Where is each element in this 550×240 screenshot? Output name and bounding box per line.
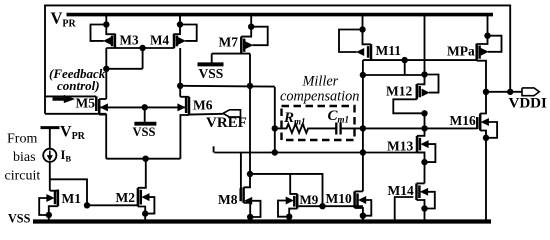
wire M11 source to rail (362, 14, 364, 30)
svg-text:bias: bias (13, 150, 36, 165)
transistor M4 channel bar (173, 34, 176, 49)
wire M7 drain down to M8 drain (244, 54, 250, 188)
wire M13 bulk loop (425, 144, 436, 162)
svg-text:M11: M11 (376, 43, 402, 58)
wire M9-M10 gate bus (299, 205, 363, 207)
svg-text:VSS: VSS (8, 212, 31, 226)
transistor M11 channel bar (370, 44, 373, 60)
arrow into M5 bulk (100, 104, 107, 111)
node M3 gate-source tap (103, 21, 109, 27)
wire M9 drain lead up (290, 174, 297, 194)
Miller compensation dashed box (282, 106, 355, 140)
transistor M9 channel bar (296, 194, 299, 209)
arrow into MPa bulk (481, 48, 488, 55)
node M16 gate wire crossing (421, 125, 427, 131)
wire M12 source to rail (424, 14, 426, 75)
svg-text:VSS: VSS (199, 66, 224, 81)
wire M5-M6 bulk tie with arrows (101, 106, 185, 108)
node M8 drain / M9 bus tap (247, 171, 253, 177)
svg-text:VDDI: VDDI (509, 96, 547, 112)
node M1 bulk-source tie (46, 212, 52, 218)
capacitor Cm1 left plate (335, 123, 337, 135)
node M4 source tap (177, 21, 183, 27)
svg-text:compensation: compensation (280, 89, 359, 105)
node comp column crossing (360, 125, 366, 131)
wire M12 gate loop (425, 75, 439, 93)
wire M1 bulk loop (39, 198, 49, 215)
wire M5 source down (99, 115, 106, 159)
wire M10 drain lead to riser (355, 190, 363, 192)
arrow into M6 bulk (178, 104, 185, 111)
transistor M16 channel bar (479, 114, 482, 131)
wire M4 source lead (174, 25, 180, 35)
wire M2 drain lead up to tail (138, 159, 146, 188)
arrow into M1 bulk (47, 195, 54, 202)
transistor M2 channel bar (137, 188, 140, 207)
wire M8 gate drop (240, 153, 242, 189)
wire Cm1 to M16 gate (341, 127, 478, 129)
wire M14 bulk loop (425, 192, 435, 209)
arrow into M14 bulk (421, 188, 428, 195)
node M2 bulk-source tie (142, 210, 148, 216)
wire M3 drain down to M5 (105, 48, 107, 99)
wire MPa drain down to VDDI node (477, 61, 486, 92)
current source IB circle (43, 149, 56, 162)
wire M1 source lead (49, 206, 58, 220)
arrow into M9 bulk (286, 197, 293, 204)
wire VREF net drop to bias bus (213, 146, 215, 152)
node feedback takeoff (507, 89, 513, 95)
wire IB to M1 (49, 162, 51, 191)
wire M10 bulk loop (363, 200, 371, 216)
transistor M7 gate bar (243, 39, 246, 52)
node MPa source tap (484, 33, 490, 39)
wire MPa gate loop (488, 36, 502, 52)
node M12 drain (421, 110, 427, 116)
svg-text:From: From (7, 132, 37, 147)
current source IB arrow (49, 151, 51, 158)
node MPa gate tap (402, 57, 408, 63)
wire center tap down (142, 48, 144, 69)
arrow into M16 bulk (481, 119, 488, 126)
node M16 bulk-drain tie (483, 135, 489, 141)
svg-text:M16: M16 (450, 113, 476, 128)
transistor M1 gate bar (54, 192, 57, 205)
wire M2 source lead (138, 207, 145, 220)
transistor M2 gate bar (140, 190, 143, 205)
transistor M12 gate bar (418, 86, 421, 97)
transistor M1 channel bar (57, 190, 60, 207)
feedback wire branch to M5 gate (45, 95, 96, 97)
svg-text:M12: M12 (386, 84, 412, 99)
svg-text:M9: M9 (300, 192, 319, 207)
wire M14 source lead (417, 200, 425, 220)
node M7 source tap (248, 24, 254, 30)
wire M8 bulk loop (250, 201, 260, 217)
svg-text:M8: M8 (218, 192, 238, 207)
svg-text:VREF: VREF (206, 115, 247, 131)
wire VDDI tap (486, 91, 522, 93)
wire M12 drain down to M13 (417, 113, 425, 136)
svg-text:M5: M5 (76, 96, 96, 111)
transistor M14 gate bar (418, 185, 421, 198)
wire M1 drain to M2 gate (87, 204, 137, 206)
feedback wire bottom segment to M5 source (45, 113, 106, 115)
arrow into M13 bulk (421, 141, 428, 148)
svg-text:M4: M4 (150, 33, 169, 48)
wire M3 gate-drain tie (106, 68, 142, 70)
wire M7 source to rail (250, 14, 252, 27)
wire bias bus to M13 gate (214, 152, 424, 154)
wire bulk tap down to VSS (144, 107, 146, 122)
svg-text:M6: M6 (193, 98, 213, 113)
wire tail node bus (106, 158, 180, 160)
wire M16 bulk loop (486, 122, 497, 138)
wire M4 source to rail (179, 14, 181, 25)
wire M3 source to rail (105, 14, 107, 25)
svg-text:control): control) (57, 78, 100, 93)
wire comp node to M7 drain column (180, 85, 275, 88)
transistor M12 channel bar (416, 84, 419, 99)
wire M11 drain to M12 gate bus (363, 74, 425, 76)
transistor M5 gate bar (95, 96, 98, 111)
capacitor Cm1 right plate (339, 123, 341, 135)
wire M7 source lead (241, 27, 251, 37)
transistor M11 gate bar (367, 46, 370, 58)
transistor M10 channel bar (353, 191, 356, 208)
wire M9 source lead (289, 209, 297, 220)
transistor M3 channel bar (114, 34, 117, 49)
VPR bar symbol left (41, 126, 60, 129)
transistor M16 gate bar (476, 117, 479, 129)
transistor M4 gate bar (176, 36, 179, 47)
wire M6 source lead to tail node (180, 115, 189, 159)
wire VPR bar to current source (49, 128, 51, 149)
wire M6 drain lead (180, 96, 189, 98)
wire M8 source lead (244, 203, 251, 220)
arrow into M3 gate (104, 37, 111, 44)
arrow into M2 bulk (142, 194, 149, 201)
node bulk VSS tap (142, 104, 148, 110)
wire M16 drain down to VSS rail (480, 131, 486, 220)
transistor M5 channel bar (98, 99, 101, 115)
svg-text:VSS: VSS (133, 125, 156, 139)
arrow into M8 bulk (245, 197, 252, 204)
node comp tap on M7 drain column (247, 83, 253, 89)
node M9 drain-gate tie (319, 203, 325, 209)
wire comp tap down to Rm1 (274, 87, 276, 153)
node M1 drain junction (84, 202, 90, 208)
node M12 source-gate (421, 71, 427, 77)
svg-text:circuit: circuit (5, 169, 41, 184)
node M3 drain / gate feedback (103, 66, 109, 72)
wire M11 drain lead and MPa gate wire (370, 59, 372, 61)
wire M11 drain down-jog (404, 60, 406, 75)
VDDI output flag (522, 88, 539, 96)
wire M9 diode loop bus (250, 174, 323, 206)
wire comp column (M11 drain down to M10 drain) (362, 60, 364, 191)
VSS bar symbol under M5/M6 bulk (134, 122, 156, 126)
wire M3-M4 drain bus (106, 47, 174, 49)
arrow into M10 bulk (359, 197, 366, 204)
wire M5 drain lead to M3 (99, 98, 106, 100)
node M4 drain / M6 drain / comp tap (177, 83, 183, 89)
wire M16 source lead from VDDI node (480, 92, 486, 114)
svg-text:M13: M13 (387, 139, 413, 154)
node MPa drain / M16 source (483, 89, 489, 95)
wire VSS stub up (211, 54, 213, 63)
wire MPa source lead (477, 36, 488, 44)
wire M4 drain down to M6 drain (179, 48, 181, 97)
wire M7 gate loop (251, 27, 268, 46)
transistor M7 channel bar (240, 37, 243, 54)
svg-text:M1: M1 (62, 191, 82, 206)
transistor M6 channel bar (188, 97, 191, 115)
top supply rail VPR (67, 13, 494, 17)
svg-text:M10: M10 (326, 191, 352, 206)
arrow into M7 bulk (245, 42, 252, 49)
transistor M9 gate bar (293, 196, 296, 207)
node M13 bulk-source tie (421, 159, 427, 165)
transistor M13 channel bar (416, 136, 419, 153)
wire M13 source lead (417, 152, 425, 183)
transistor M8 gate bar (239, 188, 242, 201)
arrow into M12 bulk (422, 89, 429, 96)
feedback indicator arrow (53, 97, 65, 100)
node M3/M4 drain bus center (139, 45, 145, 51)
node M14 bulk-source tie (421, 205, 427, 211)
node bias bus crossings (272, 149, 278, 155)
transistor M14 channel bar (415, 183, 418, 200)
wire M14 drain lead (417, 182, 425, 184)
transistor MPa gate bar (478, 46, 481, 59)
wire M12 drain jog down (393, 99, 424, 113)
wire M7 drain lead to VSS tap (212, 53, 250, 55)
transistor M8 channel bar (242, 187, 245, 203)
wire M1 drain lead (50, 190, 58, 192)
svg-text:M14: M14 (388, 183, 414, 198)
node comp column top (360, 72, 366, 78)
node M8 bulk-source tie (247, 214, 253, 220)
node M9 bulk-source tie (286, 214, 292, 220)
svg-text:M2: M2 (116, 190, 136, 205)
VREF output flag (223, 110, 241, 117)
wire M12 source lead (417, 75, 425, 85)
transistor MPa channel bar (475, 44, 478, 61)
transistor M3 gate bar (111, 36, 114, 47)
arrow into M11 bulk (357, 49, 364, 56)
svg-text:M7: M7 (219, 35, 239, 50)
arrow into M4 gate (178, 37, 185, 44)
wire M11 gate loop (339, 30, 363, 53)
svg-text:Miller: Miller (302, 74, 339, 90)
wire M9 bulk loop (278, 201, 289, 217)
transistor M10 gate bar (356, 193, 359, 206)
wire M10 source lead (355, 208, 363, 220)
feedback wire from VDDI over the top to left side (45, 5, 510, 113)
wire M3 gate loop (91, 25, 107, 41)
wire IB node branch to M1 drain bus (50, 179, 87, 205)
wire M11 source lead (363, 30, 372, 45)
transistor M6 gate bar (185, 98, 188, 114)
wire M2 bulk loop (145, 197, 154, 214)
resistor Rm1 (275, 124, 336, 133)
transistor M13 gate bar (419, 138, 422, 151)
bottom supply rail VSS (33, 219, 491, 223)
wire M14 gate to rail (395, 197, 414, 220)
wire M4 gate loop (180, 25, 197, 41)
node tail / M2 drain (142, 156, 148, 162)
node M10 bulk-source tie (360, 213, 366, 219)
wire VREF stub from M6 source (189, 113, 223, 116)
svg-text:MPa: MPa (447, 44, 475, 59)
node Rm1 left terminal (272, 125, 278, 131)
VSS bar symbol under M7 (198, 62, 224, 66)
svg-text:M3: M3 (120, 33, 139, 48)
wire M3 source lead (106, 25, 115, 35)
wire MPa source to rail (487, 14, 489, 36)
node M11 source tap (359, 26, 365, 32)
